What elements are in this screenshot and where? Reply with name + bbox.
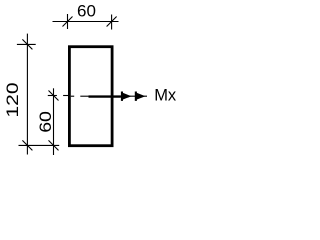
svg-text:Mx: Mx [154, 87, 177, 105]
svg-text:60: 60 [35, 111, 54, 133]
svg-text:60: 60 [77, 2, 96, 21]
svg-text:120: 120 [4, 82, 23, 117]
